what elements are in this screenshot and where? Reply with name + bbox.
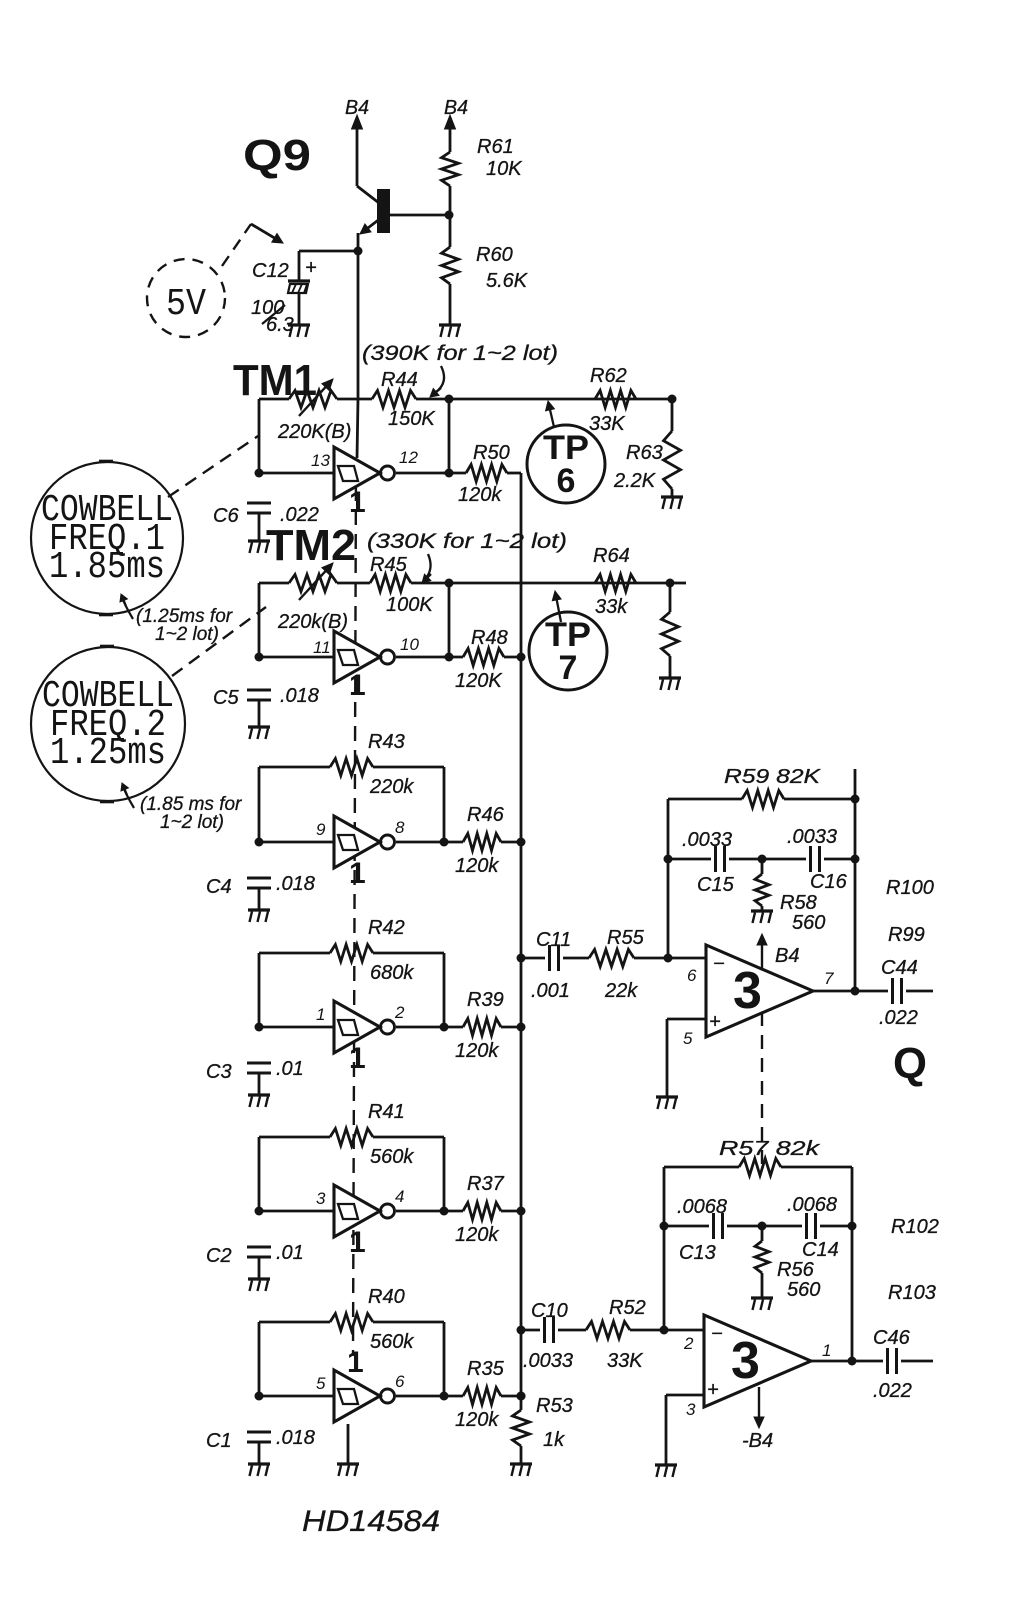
svg-text:.001: .001 <box>531 980 570 1002</box>
svg-text:C1: C1 <box>206 1430 232 1452</box>
svg-text:R52: R52 <box>609 1297 646 1319</box>
svg-text:1: 1 <box>349 486 366 519</box>
svg-text:7: 7 <box>824 969 834 988</box>
svg-text:3: 3 <box>733 962 762 1020</box>
svg-text:120k: 120k <box>455 855 499 877</box>
svg-text:5V: 5V <box>166 283 206 326</box>
svg-text:11: 11 <box>313 638 331 657</box>
svg-text:R43: R43 <box>368 731 405 753</box>
svg-text:R60: R60 <box>476 244 513 266</box>
svg-text:R63: R63 <box>626 442 663 464</box>
svg-text:560k: 560k <box>370 1146 414 1168</box>
svg-text:100K: 100K <box>386 594 434 616</box>
svg-text:R59 82K: R59 82K <box>724 766 822 788</box>
svg-text:560: 560 <box>787 1279 820 1301</box>
svg-text:33K: 33K <box>589 413 626 435</box>
svg-text:C11: C11 <box>536 929 571 951</box>
svg-text:1: 1 <box>349 1042 366 1075</box>
svg-text:220k: 220k <box>369 776 414 798</box>
svg-text:Q: Q <box>893 1039 927 1088</box>
svg-text:R55: R55 <box>607 927 645 949</box>
svg-text:220K(B): 220K(B) <box>277 421 351 443</box>
svg-text:R53: R53 <box>536 1395 573 1417</box>
svg-text:+: + <box>707 1379 719 1401</box>
svg-text:.0068: .0068 <box>677 1196 727 1218</box>
svg-text:(390K for 1~2 lot): (390K for 1~2 lot) <box>362 342 558 365</box>
svg-text:R58: R58 <box>780 892 817 914</box>
svg-text:6.3: 6.3 <box>266 314 294 336</box>
svg-text:C4: C4 <box>206 876 232 898</box>
svg-text:R56: R56 <box>777 1259 815 1281</box>
svg-text:1: 1 <box>822 1341 831 1360</box>
svg-text:+: + <box>305 257 317 279</box>
svg-text:1~2 lot): 1~2 lot) <box>160 812 224 833</box>
svg-text:5.6K: 5.6K <box>486 270 529 292</box>
svg-text:6: 6 <box>557 462 576 500</box>
svg-text:+: + <box>709 1011 721 1033</box>
svg-text:R48: R48 <box>471 627 508 649</box>
svg-text:120k: 120k <box>455 1224 499 1246</box>
svg-text:4: 4 <box>395 1187 404 1206</box>
svg-text:B4: B4 <box>345 97 369 119</box>
svg-text:C2: C2 <box>206 1245 232 1267</box>
svg-text:−: − <box>711 1323 723 1345</box>
svg-text:.0033: .0033 <box>787 826 837 848</box>
svg-text:R57 82k: R57 82k <box>719 1138 820 1160</box>
svg-text:R50: R50 <box>473 442 510 464</box>
svg-text:1~2 lot): 1~2 lot) <box>155 624 219 645</box>
svg-text:R100: R100 <box>886 877 934 899</box>
svg-text:R45: R45 <box>370 554 408 576</box>
svg-text:C44: C44 <box>881 957 918 979</box>
svg-text:7: 7 <box>559 649 578 687</box>
svg-text:R40: R40 <box>368 1286 405 1308</box>
svg-text:.01: .01 <box>276 1058 304 1080</box>
svg-text:R35: R35 <box>467 1358 505 1380</box>
svg-text:-B4: -B4 <box>742 1430 773 1452</box>
svg-text:150K: 150K <box>388 408 436 430</box>
svg-text:2: 2 <box>394 1003 405 1022</box>
svg-text:2.2K: 2.2K <box>613 470 657 492</box>
svg-text:1: 1 <box>316 1005 325 1024</box>
svg-text:R61: R61 <box>477 136 514 158</box>
svg-text:5: 5 <box>316 1374 326 1393</box>
svg-text:560: 560 <box>792 912 825 934</box>
svg-text:C12: C12 <box>252 260 289 282</box>
svg-text:R39: R39 <box>467 989 504 1011</box>
svg-text:HD14584: HD14584 <box>302 1505 440 1538</box>
svg-text:C3: C3 <box>206 1061 232 1083</box>
svg-text:R102: R102 <box>891 1216 939 1238</box>
svg-text:R62: R62 <box>590 365 627 387</box>
svg-text:680k: 680k <box>370 962 414 984</box>
svg-text:6: 6 <box>687 966 697 985</box>
svg-text:C16: C16 <box>810 871 848 893</box>
svg-text:3: 3 <box>316 1189 326 1208</box>
svg-text:.0068: .0068 <box>787 1194 837 1216</box>
svg-text:120k: 120k <box>455 1040 499 1062</box>
svg-text:C46: C46 <box>873 1327 911 1349</box>
svg-text:.022: .022 <box>873 1380 912 1402</box>
svg-text:1: 1 <box>349 1226 366 1259</box>
svg-text:1: 1 <box>349 669 366 702</box>
svg-text:−: − <box>713 953 725 975</box>
svg-text:C10: C10 <box>531 1300 568 1322</box>
svg-text:1k: 1k <box>543 1429 565 1451</box>
svg-text:R44: R44 <box>381 369 418 391</box>
svg-text:(330K for 1~2 lot): (330K for 1~2 lot) <box>367 530 567 553</box>
svg-text:B4: B4 <box>444 97 468 119</box>
svg-text:R46: R46 <box>467 804 505 826</box>
svg-text:TM2: TM2 <box>266 521 356 570</box>
svg-text:33k: 33k <box>595 596 628 618</box>
svg-text:9: 9 <box>316 820 326 839</box>
svg-text:B4: B4 <box>775 945 799 967</box>
svg-text:6: 6 <box>395 1372 405 1391</box>
svg-text:8: 8 <box>395 818 405 837</box>
svg-text:560k: 560k <box>370 1331 414 1353</box>
svg-text:5: 5 <box>683 1029 693 1048</box>
svg-text:.0033: .0033 <box>682 829 732 851</box>
svg-text:10: 10 <box>400 635 419 654</box>
svg-text:3: 3 <box>731 1332 760 1390</box>
svg-text:C5: C5 <box>213 687 239 709</box>
svg-text:120K: 120K <box>455 670 503 692</box>
svg-text:1.85ms: 1.85ms <box>49 546 165 589</box>
svg-text:C15: C15 <box>697 874 735 896</box>
svg-text:120k: 120k <box>458 484 502 506</box>
svg-text:1: 1 <box>349 857 366 890</box>
svg-text:.018: .018 <box>276 873 315 895</box>
svg-text:13: 13 <box>311 451 330 470</box>
svg-text:1.25ms: 1.25ms <box>50 732 166 775</box>
svg-text:R103: R103 <box>888 1282 936 1304</box>
svg-text:R99: R99 <box>888 924 925 946</box>
svg-text:R41: R41 <box>368 1101 405 1123</box>
svg-text:C6: C6 <box>213 505 239 527</box>
svg-text:R37: R37 <box>467 1173 505 1195</box>
svg-text:10K: 10K <box>486 158 523 180</box>
svg-text:3: 3 <box>686 1400 696 1419</box>
svg-text:.0033: .0033 <box>523 1350 573 1372</box>
svg-text:120k: 120k <box>455 1409 499 1431</box>
svg-text:R64: R64 <box>593 545 630 567</box>
svg-text:1: 1 <box>347 1346 364 1379</box>
svg-text:R42: R42 <box>368 917 405 939</box>
svg-text:Q9: Q9 <box>243 131 311 180</box>
svg-text:.022: .022 <box>879 1007 918 1029</box>
svg-text:33K: 33K <box>607 1350 644 1372</box>
svg-text:2: 2 <box>683 1334 694 1353</box>
svg-text:220k(B): 220k(B) <box>277 611 348 633</box>
svg-text:C13: C13 <box>679 1242 716 1264</box>
svg-text:22k: 22k <box>604 980 638 1002</box>
svg-text:C14: C14 <box>802 1239 839 1261</box>
svg-text:.01: .01 <box>276 1242 304 1264</box>
svg-text:.018: .018 <box>280 685 319 707</box>
svg-text:.018: .018 <box>276 1427 315 1449</box>
svg-text:12: 12 <box>399 448 418 467</box>
